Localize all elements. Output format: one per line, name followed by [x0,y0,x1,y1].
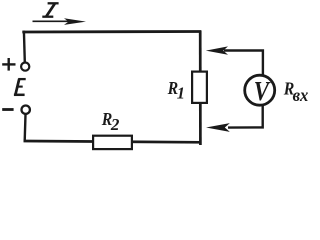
svg-text:1: 1 [177,84,185,103]
svg-text:V: V [254,78,271,107]
svg-text:2: 2 [110,115,120,134]
svg-text:вх: вх [293,86,308,105]
